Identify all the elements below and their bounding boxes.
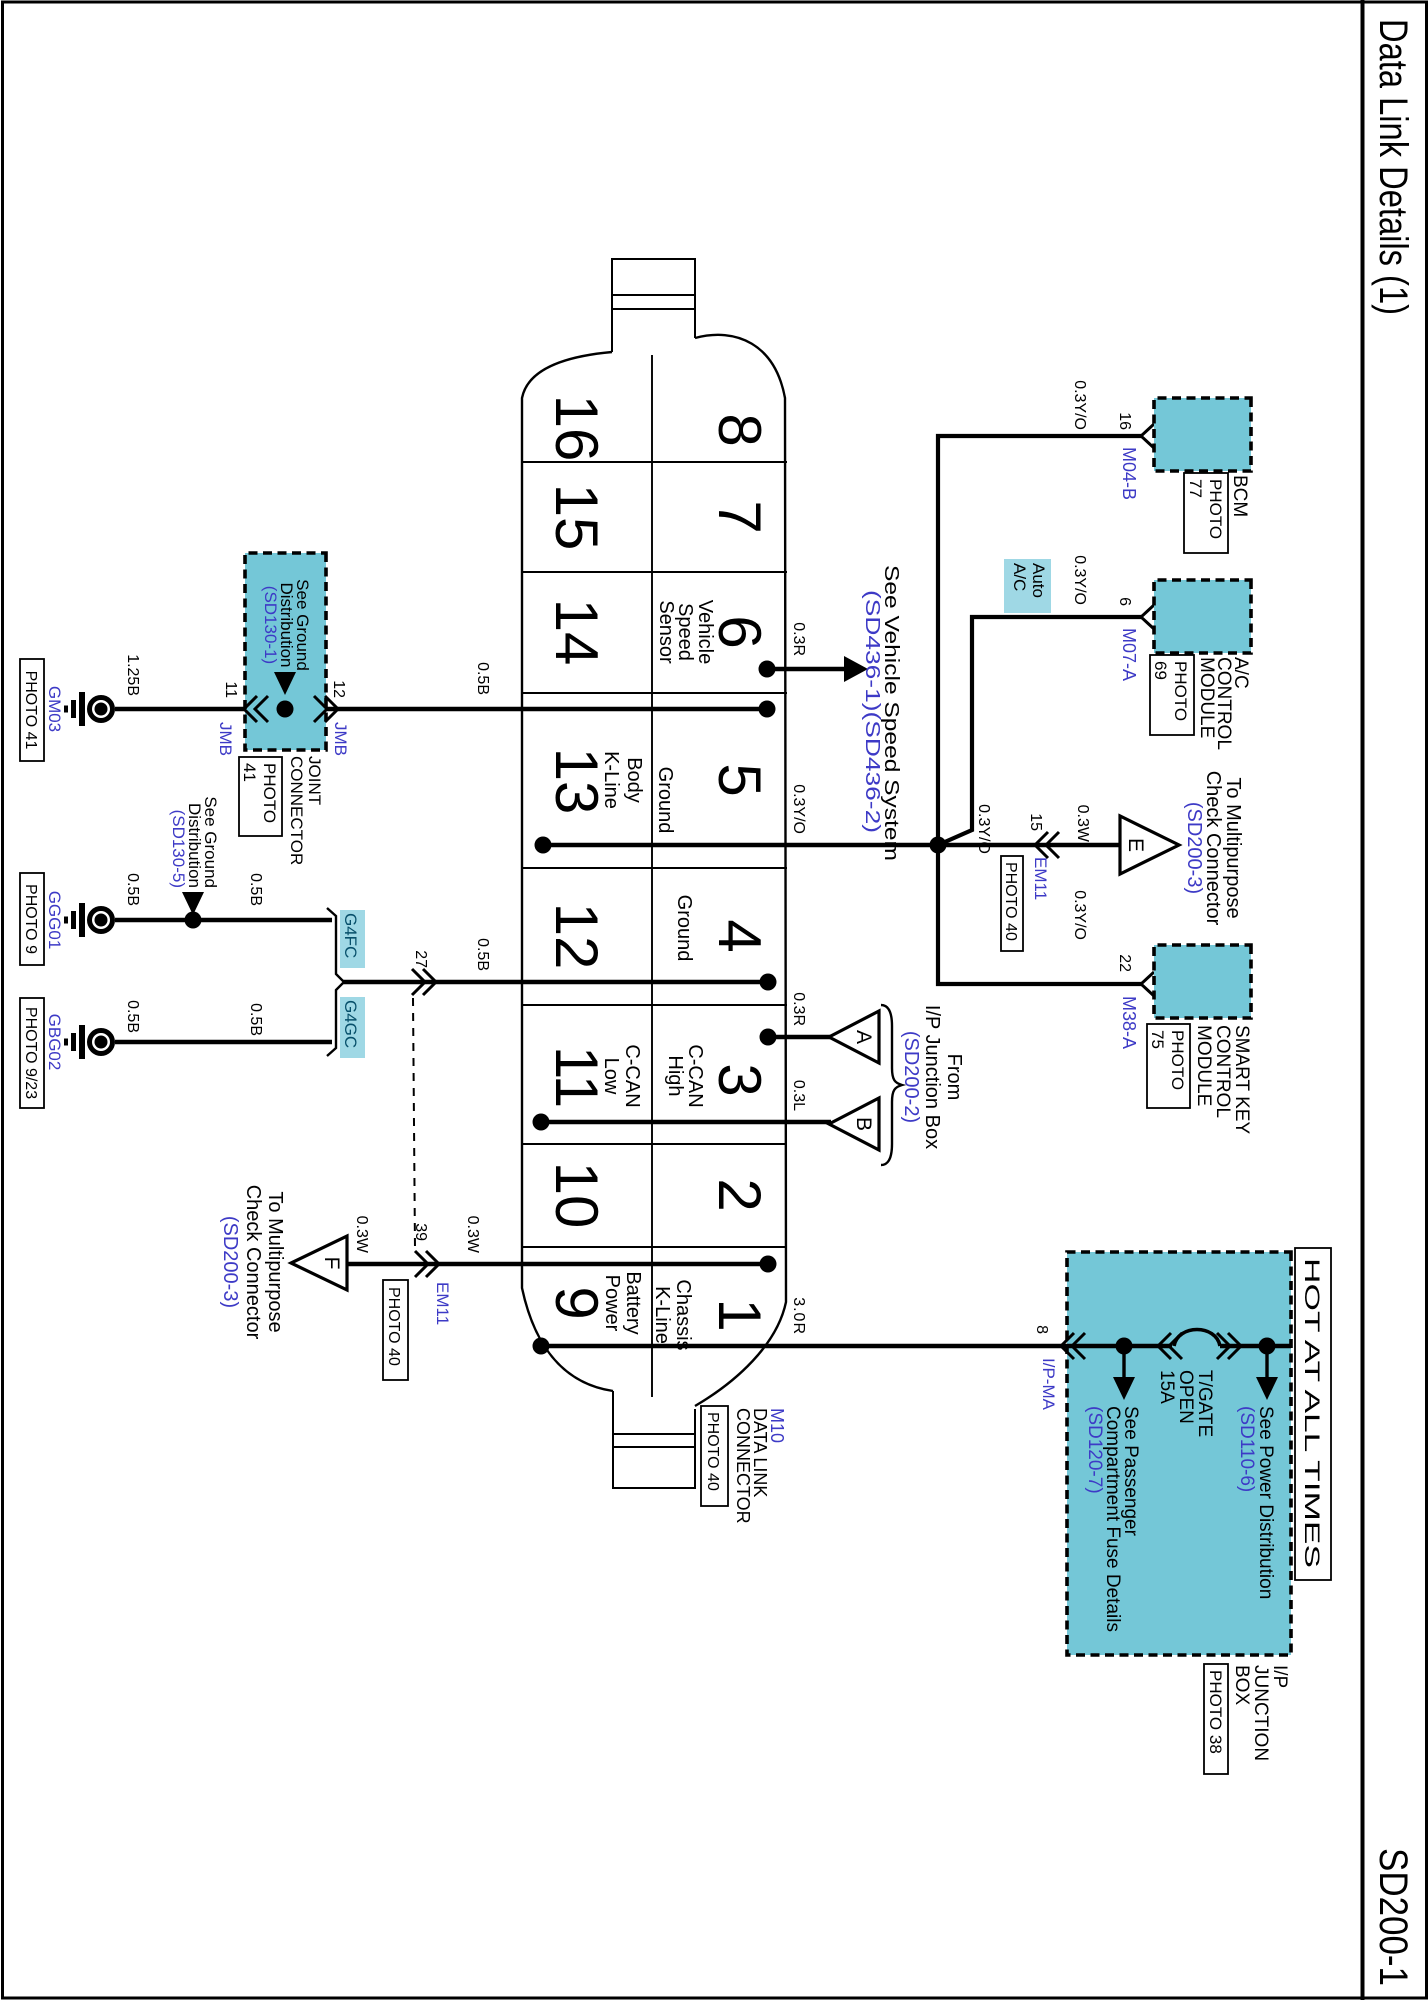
svg-text:PHOTO 40: PHOTO 40 (704, 1412, 721, 1491)
svg-text:PHOTO 9/23: PHOTO 9/23 (22, 1007, 39, 1099)
svg-text:PHOTO: PHOTO (1168, 1030, 1187, 1090)
svg-text:PHOTO 40: PHOTO 40 (385, 1287, 402, 1366)
svg-text:PHOTO: PHOTO (1206, 479, 1225, 539)
svg-text:See Power Distribution: See Power Distribution (1255, 1406, 1276, 1599)
svg-text:0.3L: 0.3L (790, 1080, 807, 1111)
svg-text:0.5B: 0.5B (247, 873, 264, 906)
svg-text:C-CAN: C-CAN (684, 1044, 706, 1107)
svg-text:77: 77 (1186, 479, 1205, 498)
svg-text:0.3Y/O: 0.3Y/O (790, 784, 807, 834)
svg-text:15: 15 (543, 484, 610, 551)
svg-text:MODULE: MODULE (1196, 657, 1217, 738)
svg-text:High: High (664, 1055, 686, 1096)
svg-text:Power: Power (601, 1275, 623, 1332)
svg-text:0.3R: 0.3R (790, 622, 807, 656)
svg-text:0.3W: 0.3W (1074, 805, 1091, 843)
svg-text:0.5B: 0.5B (247, 1003, 264, 1036)
svg-text:EM11: EM11 (433, 1282, 452, 1325)
svg-text:Sensor: Sensor (655, 600, 677, 664)
svg-text:GM03: GM03 (45, 686, 64, 732)
svg-text:0.3Y/O: 0.3Y/O (975, 804, 992, 854)
svg-text:PHOTO 41: PHOTO 41 (22, 671, 39, 750)
svg-text:(SD436-1)(SD436-2): (SD436-1)(SD436-2) (861, 590, 883, 833)
svg-text:PHOTO 40: PHOTO 40 (1002, 862, 1019, 941)
svg-text:0.3Y/O: 0.3Y/O (1071, 555, 1088, 605)
svg-text:I/P: I/P (1269, 1665, 1290, 1688)
svg-text:CONNECTOR: CONNECTOR (287, 756, 306, 865)
svg-text:6: 6 (706, 615, 773, 648)
svg-text:0.3Y/O: 0.3Y/O (1071, 380, 1088, 430)
svg-text:6: 6 (1116, 597, 1133, 606)
svg-text:8: 8 (1033, 1325, 1050, 1334)
svg-text:M07-A: M07-A (1119, 628, 1139, 681)
svg-text:Ground: Ground (654, 767, 676, 834)
svg-text:1.25B: 1.25B (124, 654, 141, 696)
svg-text:15A: 15A (1156, 1370, 1177, 1404)
svg-text:F: F (320, 1257, 343, 1270)
svg-text:GGG01: GGG01 (45, 891, 64, 950)
svg-text:1: 1 (706, 1298, 773, 1331)
svg-text:(SD130-5): (SD130-5) (169, 810, 188, 888)
svg-text:From: From (943, 1054, 965, 1101)
svg-text:0.3R: 0.3R (790, 992, 807, 1026)
svg-text:Chassis: Chassis (672, 1279, 694, 1350)
svg-text:9: 9 (543, 1286, 610, 1319)
svg-text:Auto: Auto (1029, 563, 1048, 598)
svg-text:0.5B: 0.5B (124, 873, 141, 906)
svg-text:EM11: EM11 (1031, 857, 1050, 900)
svg-text:0.3W: 0.3W (464, 1216, 481, 1254)
svg-text:See Vehicle Speed System: See Vehicle Speed System (880, 565, 902, 861)
svg-text:12: 12 (330, 680, 347, 698)
svg-text:4: 4 (706, 919, 773, 952)
svg-text:PHOTO 38: PHOTO 38 (1206, 1670, 1225, 1754)
svg-text:12: 12 (543, 903, 610, 970)
svg-text:PHOTO: PHOTO (1171, 661, 1190, 721)
svg-text:15: 15 (1027, 813, 1044, 831)
svg-text:MODULE: MODULE (1193, 1025, 1214, 1106)
svg-text:K-Line: K-Line (600, 751, 622, 809)
svg-text:To Multipurpose: To Multipurpose (1222, 777, 1244, 918)
svg-text:14: 14 (543, 599, 610, 666)
svg-text:0.5B: 0.5B (124, 1000, 141, 1033)
svg-text:16: 16 (543, 395, 610, 462)
svg-text:GBG02: GBG02 (45, 1014, 64, 1071)
svg-text:Speed: Speed (674, 603, 696, 661)
svg-text:JOINT: JOINT (305, 756, 324, 805)
svg-text:B: B (852, 1117, 875, 1131)
svg-text:3: 3 (706, 1063, 773, 1096)
svg-text:To Multipurpose: To Multipurpose (264, 1191, 286, 1332)
svg-text:DATA LINK: DATA LINK (750, 1408, 770, 1497)
svg-text:T/GATE: T/GATE (1194, 1370, 1215, 1437)
svg-text:Vehicle: Vehicle (694, 600, 716, 665)
svg-text:JMB: JMB (331, 722, 350, 756)
svg-text:JUNCTION: JUNCTION (1250, 1665, 1271, 1761)
svg-text:JMB: JMB (216, 722, 235, 756)
svg-text:0.3Y/O: 0.3Y/O (1071, 890, 1088, 940)
svg-text:3.0R: 3.0R (790, 1297, 807, 1335)
svg-text:69: 69 (1151, 661, 1170, 680)
svg-text:8: 8 (706, 413, 773, 446)
svg-text:HOT AT ALL TIMES: HOT AT ALL TIMES (1300, 1258, 1323, 1568)
svg-text:10: 10 (543, 1162, 610, 1229)
svg-text:SMART KEY: SMART KEY (1231, 1025, 1252, 1134)
svg-text:(SD200-2): (SD200-2) (900, 1031, 922, 1123)
svg-text:0.3W: 0.3W (353, 1216, 370, 1254)
svg-text:See Passenger: See Passenger (1120, 1406, 1141, 1537)
svg-text:A/C: A/C (1010, 563, 1029, 591)
svg-text:M38-A: M38-A (1119, 996, 1139, 1049)
svg-text:I/P-MA: I/P-MA (1039, 1358, 1058, 1411)
svg-text:22: 22 (1116, 954, 1133, 972)
svg-text:M10: M10 (767, 1408, 787, 1443)
svg-text:5: 5 (706, 763, 773, 796)
svg-text:0.5B: 0.5B (474, 662, 491, 695)
svg-text:A: A (852, 1030, 875, 1044)
svg-text:PHOTO: PHOTO (260, 763, 279, 823)
svg-text:0.5B: 0.5B (474, 938, 491, 971)
svg-text:Body: Body (623, 757, 645, 803)
svg-text:G4FC: G4FC (341, 913, 360, 958)
svg-text:BOX: BOX (1231, 1665, 1252, 1705)
svg-text:41: 41 (240, 763, 259, 782)
svg-text:I/P Junction Box: I/P Junction Box (921, 1005, 943, 1149)
svg-text:2: 2 (706, 1178, 773, 1211)
svg-text:Battery: Battery (622, 1271, 644, 1334)
svg-text:Ground: Ground (673, 895, 695, 962)
svg-text:K-Line: K-Line (651, 1286, 673, 1344)
svg-text:Low: Low (600, 1058, 622, 1095)
svg-text:11: 11 (222, 681, 239, 698)
svg-text:(SD200-3): (SD200-3) (1183, 802, 1205, 894)
svg-text:Compartment Fuse Details: Compartment Fuse Details (1102, 1406, 1123, 1632)
svg-text:M04-B: M04-B (1119, 447, 1139, 500)
svg-text:PHOTO 9: PHOTO 9 (22, 884, 39, 954)
svg-text:39: 39 (412, 1223, 429, 1241)
svg-text:Data Link Details (1): Data Link Details (1) (1371, 19, 1415, 315)
svg-text:(SD200-3): (SD200-3) (219, 1216, 241, 1308)
svg-text:SD200-1: SD200-1 (1371, 1848, 1415, 1986)
svg-text:(SD110-6): (SD110-6) (1236, 1406, 1257, 1492)
svg-text:27: 27 (412, 950, 429, 968)
svg-text:BCM: BCM (1229, 475, 1250, 517)
svg-text:(SD120-7): (SD120-7) (1084, 1406, 1105, 1494)
svg-text:75: 75 (1148, 1030, 1167, 1049)
svg-text:E: E (1124, 838, 1147, 852)
svg-text:(SD130-1): (SD130-1) (261, 586, 280, 664)
svg-text:16: 16 (1116, 412, 1133, 430)
svg-text:CONNECTOR: CONNECTOR (733, 1408, 753, 1524)
svg-text:OPEN: OPEN (1175, 1370, 1196, 1424)
svg-text:G4GC: G4GC (341, 1000, 360, 1048)
svg-text:7: 7 (706, 500, 773, 533)
svg-text:Check Connector: Check Connector (1202, 771, 1224, 926)
svg-text:C-CAN: C-CAN (621, 1044, 643, 1107)
svg-text:CONTROL: CONTROL (1212, 1025, 1233, 1118)
svg-text:Check Connector: Check Connector (242, 1185, 264, 1340)
